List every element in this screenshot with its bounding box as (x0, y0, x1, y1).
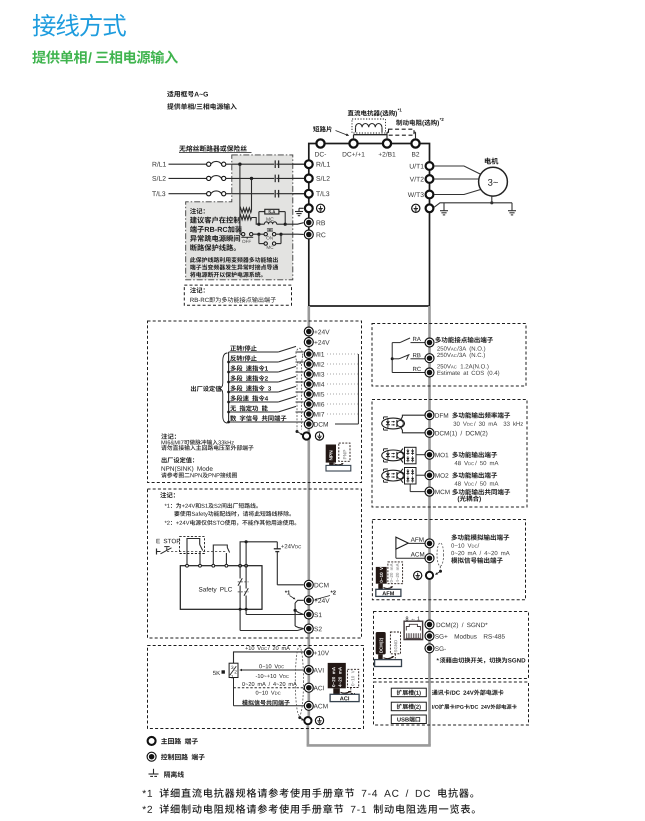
leader MI2 to common (327, 363, 358, 365)
label no-fuse breaker or fuse (179, 145, 252, 152)
terminal MI3 (304, 370, 324, 379)
EMI capacitor on phase line (274, 160, 278, 168)
common wire MI to DCM (335, 354, 358, 424)
label R/L1 supply (153, 162, 166, 167)
VFD main block outline (309, 144, 430, 307)
relay contact RA (392, 337, 426, 343)
junction S tap (250, 177, 253, 180)
terminal MO1 (425, 450, 448, 459)
shield terminal a (303, 432, 310, 439)
terminal MI6 (304, 400, 324, 409)
wire T into terminal (232, 193, 305, 195)
fuse S phase (169, 176, 305, 181)
terminal RB (304, 218, 325, 227)
terminal SG- (425, 644, 446, 653)
label relay output header (435, 337, 493, 343)
page title (33, 14, 126, 37)
wire channel B to S2 (240, 609, 304, 630)
default-setting vertical wire (228, 352, 230, 422)
wire pot bottom to ACM (234, 678, 304, 706)
wire R tap down (239, 164, 241, 210)
shield drain AFM (435, 566, 442, 575)
PLC pin (245, 564, 248, 567)
surge absorber S.A (259, 209, 285, 224)
shield ellipse digital (296, 348, 303, 429)
label +10V/20mA (245, 646, 290, 650)
PLC pin bottom A (239, 608, 242, 611)
shield terminal c (426, 572, 433, 579)
switch input MI4 (227, 375, 303, 383)
ground symbol in block right (412, 204, 420, 212)
label 250V 1.2A (437, 364, 488, 370)
terminal R/L1 (305, 160, 330, 168)
ground symbol in block left (317, 204, 325, 212)
note SGND switch (437, 657, 526, 663)
leader MI5 to common (327, 393, 358, 395)
footnote 1 (142, 788, 473, 798)
wire V to motor (434, 178, 479, 180)
optocoupler MO2 (382, 468, 425, 485)
label shorting plate (313, 126, 332, 132)
analog output section box (372, 520, 525, 600)
wire U to motor (434, 166, 480, 174)
leader arrow to jumper (336, 131, 350, 136)
label 0-20mA ACI (242, 682, 297, 686)
wire R into terminal (232, 163, 305, 165)
terminal DCM1 (425, 428, 487, 437)
label MCM sub (458, 495, 481, 502)
leader MI3 to common (327, 373, 358, 375)
resistor upper in protection circuit (240, 208, 252, 213)
estop channel box dashed (180, 537, 205, 554)
wire AVI wiper (239, 669, 303, 671)
PLC pin (225, 564, 228, 567)
junction R tap (238, 163, 241, 166)
safety contact channel A (238, 566, 249, 610)
terminal AFM (425, 539, 434, 548)
label MO1 spec (455, 461, 499, 465)
EMI capacitor on phase line (274, 175, 278, 183)
terminal +24V sto (304, 596, 329, 605)
terminal RB out (425, 354, 434, 363)
wire to OFF button (240, 210, 242, 234)
contactor coil MC (264, 217, 285, 224)
selector switch NPN/PNP (326, 443, 351, 471)
terminal DCM (304, 420, 328, 429)
label DC+/+1 (343, 152, 365, 157)
note text in protection area (190, 208, 278, 277)
shield ellipse analog (295, 647, 303, 716)
terminal MI2 (304, 360, 324, 369)
analog input section box (148, 646, 364, 729)
selector switch AFM (376, 562, 403, 596)
terminal +24V a (304, 327, 329, 336)
label S/L2 supply (152, 176, 165, 181)
terminal RC out (425, 368, 434, 377)
estop channel 2 (213, 545, 229, 566)
label slot1 cards (432, 690, 504, 696)
resistor lower in protection circuit (240, 215, 252, 220)
pushbutton OFF (241, 233, 259, 244)
selector switch DCM2/SGND (375, 632, 402, 667)
terminal S/L2 (305, 175, 330, 183)
switch input MI5 (227, 385, 303, 393)
comms section box (374, 612, 529, 679)
wire 24V rail (240, 542, 277, 566)
relay contact RB (392, 353, 426, 360)
label AFM spec2 (451, 551, 509, 555)
label 0-10Vdc ACI (256, 691, 281, 695)
EMI capacitor on phase line (274, 190, 278, 198)
terminal DCM sto (304, 580, 328, 589)
label MO1 header (452, 452, 497, 458)
note digital inputs (161, 433, 253, 477)
terminal S1 (304, 610, 321, 619)
label AFM header (451, 534, 509, 540)
digital input section box (148, 321, 362, 483)
label *1 jumper (285, 591, 296, 600)
label DC reactor (optional) *1 (348, 108, 402, 116)
junction motor ground (490, 196, 493, 204)
terminal S2 (304, 624, 321, 633)
PLC pin (186, 564, 189, 567)
terminal U/T1 (410, 162, 434, 170)
label MO2 spec (455, 481, 499, 485)
PLC pin bottom B (245, 608, 248, 611)
terminal PE right (426, 204, 434, 212)
terminal MI7 (304, 410, 324, 419)
fuse R phase (169, 161, 305, 166)
legend main circuit terminal (148, 737, 198, 745)
optocoupler DFM (382, 415, 425, 433)
wire battery to DCM (277, 552, 303, 585)
label +2/B1 (379, 152, 396, 157)
legend control terminal (147, 752, 205, 761)
terminal DC+/+1 (349, 139, 357, 147)
junction OFF-ON (257, 233, 260, 236)
expansion slot 1 (391, 688, 426, 697)
leader MI7 to common (327, 413, 358, 415)
junction MC line right (284, 223, 287, 226)
terminal DC- (316, 139, 324, 147)
terminal W/T3 (408, 191, 434, 199)
label estimate cos (437, 371, 499, 377)
bus right control column (428, 306, 431, 745)
junction ch-B rail (245, 540, 248, 566)
earth at motor (508, 211, 516, 215)
junction MC line left (257, 223, 260, 226)
wire pot top (234, 652, 304, 663)
wire channel A to S1 (246, 609, 304, 614)
note frame applicability (167, 91, 208, 97)
bus bottom connector (307, 725, 431, 745)
switch input MI7 (227, 405, 303, 413)
leader MI4 to common (327, 383, 358, 385)
label analog common (242, 700, 290, 706)
selector switch ACI (328, 663, 359, 702)
switch input MI6 (227, 395, 303, 403)
label slot2 cards (432, 704, 517, 709)
label 0-10Vdc AVI (259, 664, 284, 668)
battery +24Vdc (274, 542, 301, 552)
label DC- (315, 152, 326, 157)
terminal DFM (425, 411, 448, 420)
multifunction output section box (372, 400, 527, 508)
label E.STOP (157, 539, 181, 543)
wire ACM analog (396, 549, 425, 558)
label brake resistor (optional) *2 (396, 118, 443, 126)
label 250V NO (437, 346, 485, 352)
terminal ACI (304, 683, 324, 692)
leader MI1 to common (327, 353, 358, 355)
terminal SG+ (425, 632, 505, 641)
wire W to motor (434, 190, 480, 195)
emergency stop contact (157, 547, 172, 555)
jumper 24V-S1-S2 (294, 600, 304, 628)
terminal RA (425, 338, 434, 347)
terminal MO2 (425, 471, 448, 480)
safety PLC (180, 566, 262, 610)
label MCM header (452, 489, 510, 495)
factory default brace (191, 353, 228, 423)
terminal MI5 (304, 390, 324, 399)
note box RB-RC (184, 285, 291, 305)
amplifier AFM (396, 537, 425, 549)
terminal MCM (425, 487, 450, 496)
shield terminal b (304, 717, 311, 724)
label MO2 header (452, 472, 497, 478)
terminal T/L3 (305, 190, 329, 198)
optocoupler MO1 (382, 447, 425, 464)
expansion section box (374, 682, 529, 725)
wire S into terminal (232, 177, 305, 179)
legend shield symbol (149, 769, 184, 778)
label DFM header (452, 412, 510, 418)
estop channel 1 (187, 539, 203, 566)
shorting jumper (short-circuit plate) (354, 132, 388, 138)
shield drain wire (296, 430, 304, 435)
label DFM spec (453, 421, 523, 425)
wire to RC (281, 233, 304, 235)
label *2 jumper (314, 590, 335, 600)
switch input MI2 (227, 355, 303, 363)
page subtitle (32, 50, 178, 63)
switch input MI3 (227, 365, 303, 373)
label motor (485, 158, 499, 165)
wire resistor to MC line (252, 218, 265, 225)
label -10~+10Vdc (256, 674, 289, 678)
label B2 (412, 152, 419, 157)
wire PE to earths (434, 203, 512, 211)
terminal RC (304, 230, 325, 239)
terminal +24V b (304, 338, 329, 347)
ground symbol a (315, 432, 323, 440)
bus left control column (307, 306, 310, 717)
ground symbol c (414, 571, 422, 579)
terminal +10V (304, 648, 329, 657)
fuse T phase (169, 191, 305, 196)
motor M1 (479, 167, 508, 196)
expansion slot 2 (391, 702, 426, 711)
wire ACI dashed (234, 687, 304, 689)
input function label DCM (227, 415, 303, 423)
terminal MI4 (304, 380, 324, 389)
note STO (160, 492, 296, 525)
holding contact MC parallel (259, 234, 281, 249)
relay wire RC (392, 367, 426, 373)
USB port slot (391, 715, 426, 724)
relay common wire (391, 343, 394, 373)
junction ON-RC (279, 233, 282, 236)
RJ45 socket (404, 621, 423, 639)
earth near block (440, 203, 448, 215)
PLC pin (212, 564, 215, 567)
shield ellipse AFM (437, 543, 444, 566)
terminal AVI (304, 666, 323, 675)
estop linkage dashed (167, 550, 227, 552)
footnote 2 (142, 804, 474, 814)
wire MC line to RB (285, 223, 303, 225)
terminal +2/B1 (383, 139, 391, 147)
terminal V/T2 (410, 175, 434, 183)
DC reactor (optional) (352, 119, 386, 133)
terminal MI1 (304, 350, 324, 359)
terminal PE left (305, 204, 313, 212)
ground left of block (295, 208, 304, 215)
label T/L3 supply (152, 191, 165, 196)
safety contact channel B (238, 566, 249, 610)
brake resistor (optional) (387, 129, 416, 138)
STO section box (148, 489, 362, 638)
terminal B2 (411, 139, 419, 147)
relay output section box (372, 324, 526, 387)
switch input MI1 (229, 345, 304, 352)
ground symbol b (315, 717, 323, 725)
terminal ACM out (425, 554, 434, 563)
shield drain analog (298, 716, 304, 721)
note input type (167, 103, 237, 109)
protection circuit shaded area (186, 155, 293, 280)
wire S tap down (251, 178, 253, 210)
PLC pin (239, 564, 242, 567)
wire MCM common (410, 484, 425, 492)
PLC pin (199, 564, 202, 567)
label AFM spec1 (451, 543, 479, 547)
potentiometer 5K (213, 663, 238, 678)
pushbutton ON (259, 229, 281, 240)
terminal ACM (304, 701, 327, 710)
label AFM footer (451, 557, 503, 563)
label 250V NC (437, 353, 485, 359)
leader MI6 to common (327, 403, 358, 405)
label RJ45 pins (406, 617, 420, 621)
terminal DCM2 (425, 620, 488, 629)
